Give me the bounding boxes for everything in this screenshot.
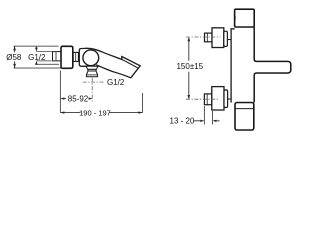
- dimension 13-20 line left: [193, 120, 201, 122]
- dimension 150+-15 arrow up: [188, 37, 191, 41]
- bottom handle boss: [224, 90, 228, 108]
- top port block: [235, 9, 255, 27]
- dimension G1/2 arrow down (to thread top): [35, 47, 37, 48]
- shower outlet nozzle: [86, 71, 97, 77]
- extension line top (escutcheon top): [14, 45, 59, 47]
- extension line bottom (escutcheon bottom): [14, 67, 61, 69]
- top handle stem line: [227, 39, 231, 41]
- body right edge with spout stub: [254, 27, 291, 103]
- extension line left (wall face): [59, 70, 61, 112]
- union nut: [73, 52, 78, 61]
- extension line handle tip face: [203, 106, 205, 124]
- union nut seam: [75, 52, 77, 61]
- top handle boss: [224, 31, 228, 46]
- outlet centerline horizontal: [83, 81, 105, 83]
- bottom outlet block seam: [235, 108, 254, 110]
- svg-text:G1/2: G1/2: [28, 53, 46, 62]
- inlet thread stub: [53, 52, 62, 61]
- dimension 190-197 left arrow: [60, 111, 64, 113]
- extension line nut bottom: [36, 63, 59, 65]
- handle disc: [83, 50, 99, 66]
- dimension G1/2 arrow up (to thread bottom): [35, 63, 37, 64]
- dimension 190-197 right arrow: [138, 111, 142, 113]
- dimension D58 line: [14, 46, 16, 68]
- bottom outlet block: [235, 103, 254, 131]
- spout tube top edge at tip: [122, 59, 139, 68]
- extension line handle knob face: [211, 111, 213, 125]
- bottom handle knob: [212, 87, 224, 110]
- dimension 150+-15 arrow down: [187, 95, 190, 99]
- top handle centerline: [186, 36, 221, 38]
- bottom handle tip: [204, 94, 211, 105]
- svg-text:G1/2: G1/2: [107, 78, 125, 87]
- top port inner tick: [234, 16, 236, 19]
- dimension 85-92 left arrow: [60, 97, 64, 99]
- shower outlet nozzle seam: [86, 74, 97, 76]
- dimension 85-92 right arrow: [89, 97, 93, 99]
- extension line spout tip: [141, 93, 143, 113]
- extension line thread bottom: [36, 60, 51, 62]
- top handle tip: [205, 33, 213, 42]
- dimension 13-20 right arrow into left line: [200, 120, 204, 122]
- thread stub seam: [55, 52, 57, 61]
- wall escutcheon: [61, 46, 73, 68]
- dimension D58 arrow down: [13, 64, 16, 68]
- svg-text:Ø58: Ø58: [6, 53, 22, 62]
- dimension 190-197 line: [60, 112, 142, 114]
- dimension 13-20 tail right: [216, 120, 220, 122]
- outlet centerline vertical: [91, 78, 93, 103]
- svg-text:85-92: 85-92: [68, 94, 89, 103]
- body left edge: [231, 29, 235, 103]
- shower outlet flange: [86, 66, 98, 69]
- valve body and spout outline: [79, 48, 140, 78]
- svg-text:13 - 20: 13 - 20: [170, 116, 195, 125]
- dimension 150+-15 line: [188, 38, 190, 98]
- svg-text:150±15: 150±15: [176, 62, 203, 71]
- top handle tip seam: [206, 33, 208, 42]
- dimension D58 arrow up: [13, 46, 16, 50]
- extension line thread top: [36, 51, 52, 53]
- bottom handle centerline: [186, 98, 218, 100]
- svg-text:190 - 197: 190 - 197: [79, 108, 111, 117]
- bottom handle tip seam: [206, 94, 208, 105]
- dimension 13-20 left arrow from right: [212, 120, 216, 122]
- bottom handle stem line: [228, 98, 232, 100]
- shower outlet collar: [88, 69, 96, 71]
- top handle knob: [212, 28, 224, 48]
